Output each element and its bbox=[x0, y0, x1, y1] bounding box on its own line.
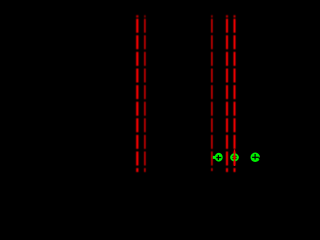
dashed red line L1 top nub x=137 bbox=[136, 15, 138, 17]
marker M3 disc with cross x=255.2 bbox=[250, 153, 260, 163]
dashed red line L4 top nub x=227 bbox=[226, 15, 228, 17]
dashed red line L1 x=137 bbox=[136, 19, 138, 172]
dashed red line L2 x=145 bbox=[144, 19, 146, 172]
red plus tick at marker M2 center bbox=[233, 157, 236, 158]
marker M1 disc with cross x=218.7 bbox=[213, 153, 223, 162]
marker M2 ring with crosshair x=234.5 bbox=[231, 153, 239, 161]
red line overlay through marker M2 bbox=[234, 150, 236, 167]
dashed red line L2 top nub x=145 bbox=[144, 15, 146, 17]
dashed red line L5 x=234.5 bbox=[234, 19, 236, 172]
dashed red line L3 x=211.9 bbox=[211, 19, 213, 171]
dashed red line L4 x=227 bbox=[226, 19, 228, 172]
dashed red line L5 top nub x=234.5 bbox=[234, 15, 236, 17]
dashed red line L3 top nub x=211.9 bbox=[211, 15, 213, 17]
